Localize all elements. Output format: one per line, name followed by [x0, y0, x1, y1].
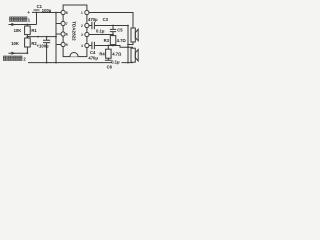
wire bus to pin4L: [56, 44, 61, 46]
right bus down: [127, 26, 129, 63]
capacitor C2: [43, 40, 50, 42]
pin numbers U1 right: [81, 11, 83, 48]
svg-text:R4: R4: [99, 52, 105, 57]
speaker SP2: [131, 48, 135, 62]
zobel2: resistor R4: [107, 46, 109, 50]
wire SP2 bottom: [128, 61, 133, 63]
notch U1: [70, 53, 78, 57]
svg-text:+100μ: +100μ: [37, 44, 49, 49]
resistor R3: [110, 36, 116, 45]
svg-text:4.7Ω: 4.7Ω: [112, 52, 122, 57]
ground bus left: [55, 13, 57, 63]
pin numbers U1 left: [66, 11, 68, 47]
svg-text:8: 8: [66, 11, 68, 15]
svg-text:470μ: 470μ: [88, 55, 98, 60]
wire pin1R to speaker1 top: [89, 13, 133, 29]
wire C1 to pin1L: [41, 12, 61, 14]
svg-text:5: 5: [66, 43, 68, 47]
resistor R2: [25, 38, 31, 47]
svg-text:C6: C6: [107, 64, 113, 69]
speaker SP1: [131, 28, 135, 42]
wire C1 lead down: [36, 13, 38, 25]
capacitor C6: [105, 58, 112, 62]
svg-text:TDA2822: TDA2822: [72, 21, 77, 41]
label signal input 1: [10, 17, 31, 23]
svg-text:10K: 10K: [14, 28, 22, 33]
label signal input 2: [3, 56, 26, 62]
svg-text:4: 4: [81, 44, 83, 48]
wire input 1 with arrow: [9, 24, 37, 26]
svg-text:+: +: [27, 10, 30, 15]
capacitor C1: [32, 10, 41, 12]
svg-text:0.1μ: 0.1μ: [111, 60, 120, 65]
svg-text:470μ: 470μ: [88, 17, 98, 22]
svg-text:C5: C5: [117, 28, 123, 33]
capacitor C4: [89, 42, 94, 50]
svg-text:4.7Ω: 4.7Ω: [117, 38, 127, 43]
ground rail: [28, 62, 128, 64]
op-amp U1 TDA2822 body: [63, 5, 87, 57]
svg-text:0.1μ: 0.1μ: [96, 29, 105, 34]
svg-text:R3: R3: [104, 38, 110, 43]
pin circles U1 right: [85, 10, 89, 14]
pin circles U1 left: [61, 10, 65, 14]
node input1/R1 junction: [27, 24, 29, 26]
svg-text:7: 7: [66, 22, 68, 26]
wire bus to pin2L: [56, 23, 61, 25]
resistor R1: [25, 26, 31, 35]
svg-text:C3: C3: [103, 17, 109, 22]
wire SP1 bottom: [128, 42, 133, 45]
wire R1 bottom to bus: [27, 36, 56, 38]
svg-text:6: 6: [66, 33, 68, 37]
wire input 2 with arrow: [9, 52, 28, 54]
wire C2 to ground rail: [46, 43, 48, 63]
svg-text:2: 2: [81, 24, 83, 28]
node mid junction: [37, 36, 39, 38]
node C2 corner: [46, 36, 48, 38]
wire pin3R: [89, 34, 113, 36]
svg-text:3: 3: [81, 33, 83, 37]
node C1 junction: [36, 12, 38, 14]
svg-text:10K: 10K: [11, 41, 19, 46]
wire bus to pin3L: [56, 33, 61, 35]
wire C4 to speaker2: [94, 46, 132, 49]
node input2/R2 junction: [27, 52, 29, 54]
wire C3 to right bus: [94, 25, 128, 27]
svg-text:R1: R1: [31, 28, 37, 33]
capacitor C2 lead from wire: [46, 37, 48, 41]
svg-text:1: 1: [81, 11, 83, 15]
node R1 wire junction: [27, 36, 29, 38]
zobel1: capacitor C5: [110, 26, 116, 35]
capacitor C3: [89, 22, 94, 30]
